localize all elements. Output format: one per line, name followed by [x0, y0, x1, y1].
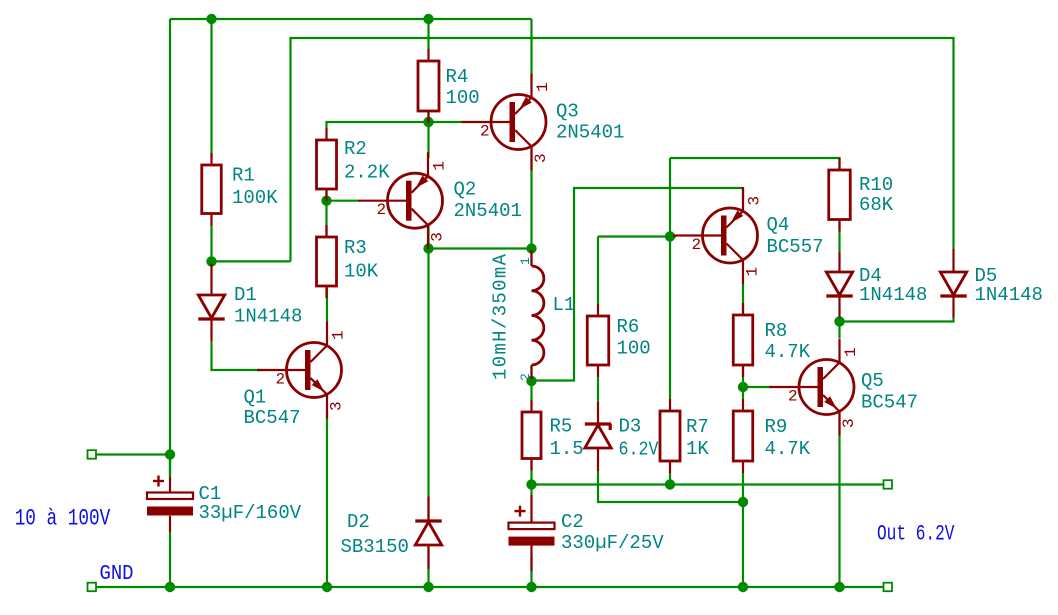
junction [526, 243, 536, 253]
wire left rail [169, 19, 171, 477]
svg-text:D1: D1 [234, 284, 257, 306]
wire R2 top to Q3 base [327, 122, 463, 129]
wire C1 top lead [169, 455, 171, 477]
wire R9 top [742, 387, 744, 399]
svg-text:1: 1 [431, 161, 449, 171]
wire L1 top lead [530, 249, 532, 267]
svg-text:4.7K: 4.7K [765, 438, 811, 460]
svg-text:2: 2 [518, 373, 533, 381]
wire second rail [291, 38, 954, 261]
wire L1 to R5 [530, 381, 532, 400]
svg-text:68K: 68K [859, 194, 894, 216]
wire R5 bottom [530, 459, 532, 485]
wire D1 to Q1 base [212, 341, 263, 370]
diode D2 leads [427, 497, 429, 522]
terminal input [88, 450, 97, 459]
svg-text:BC557: BC557 [767, 236, 824, 258]
junction [738, 582, 748, 592]
transistor Q5 [799, 360, 854, 415]
wire R4 to junction [427, 111, 429, 122]
wire R2 bottom junction [325, 189, 327, 237]
wire R1 column [210, 19, 212, 157]
capacitor C1 [147, 493, 193, 500]
wire C2 bottom to GND [530, 555, 532, 587]
resistor R3 [325, 225, 327, 237]
svg-text:10 à 100V: 10 à 100V [15, 506, 111, 532]
wire R10 riser [670, 158, 840, 170]
junction [738, 382, 748, 392]
junction [738, 497, 748, 507]
svg-text:BC547: BC547 [861, 392, 918, 414]
transistor Q2 [388, 173, 443, 228]
svg-text:3: 3 [429, 232, 447, 242]
resistor R10 [838, 158, 840, 170]
svg-text:330µF/25V: 330µF/25V [561, 532, 664, 554]
svg-text:1: 1 [842, 347, 860, 357]
wire Q2 pin3 to L1 wire [427, 225, 429, 249]
resistor R7 [669, 399, 671, 411]
svg-text:100: 100 [446, 87, 480, 109]
wire Q5 base [743, 386, 772, 388]
junction [165, 449, 175, 459]
svg-text:10K: 10K [344, 261, 379, 283]
svg-text:1.5: 1.5 [550, 438, 584, 460]
inductor L1 [532, 266, 544, 365]
svg-text:R9: R9 [765, 416, 788, 438]
diode D1 leads [210, 264, 212, 295]
svg-text:C2: C2 [561, 511, 584, 533]
svg-text:1K: 1K [686, 438, 709, 460]
wire R8 bottom junction [742, 365, 744, 387]
svg-text:1N4148: 1N4148 [859, 284, 927, 306]
terminal GND right [884, 583, 893, 592]
wire R9 bottom to GND [742, 473, 744, 587]
svg-text:R6: R6 [617, 316, 640, 338]
svg-text:Out 6.2V: Out 6.2V [877, 522, 955, 547]
svg-text:10mH/350mA: 10mH/350mA [490, 253, 512, 380]
svg-text:6.2V: 6.2V [619, 439, 660, 461]
svg-text:R4: R4 [446, 66, 469, 88]
wire Q3 pin1 from top rail [530, 19, 532, 80]
junction [526, 479, 536, 489]
capacitor C1 leads [169, 477, 171, 493]
wire top rail [170, 18, 532, 20]
svg-text:R5: R5 [550, 416, 573, 438]
svg-text:D3: D3 [619, 416, 642, 438]
zener D3 leads [597, 402, 599, 423]
wire R4 column top [427, 19, 429, 50]
resistor R4 [427, 49, 429, 61]
junction [423, 582, 433, 592]
svg-text:100K: 100K [232, 187, 278, 209]
capacitor C2 [509, 523, 555, 530]
svg-text:1N4148: 1N4148 [234, 306, 302, 328]
svg-text:BC547: BC547 [244, 407, 301, 429]
diode D4 leads [838, 252, 840, 272]
wire C2 top [530, 485, 532, 498]
svg-text:3: 3 [746, 196, 764, 206]
capacitor C2 leads [530, 495, 532, 522]
svg-text:3: 3 [532, 153, 550, 163]
resistor R2 [325, 128, 327, 140]
svg-text:33µF/160V: 33µF/160V [199, 502, 302, 524]
inductor L1 leads [530, 250, 532, 266]
wire R7 column [669, 158, 671, 399]
zener D3 [585, 425, 611, 448]
wire junction to Q5 pin1 [838, 322, 840, 339]
svg-text:R2: R2 [344, 138, 367, 160]
wire R10 to D4 [838, 220, 840, 253]
wire L1 bottom lead [530, 365, 532, 381]
wire Q2-L1 horizontal [429, 247, 532, 249]
svg-text:1N4148: 1N4148 [975, 284, 1043, 306]
svg-text:2N5401: 2N5401 [556, 122, 624, 144]
diode D4 [826, 272, 852, 295]
diode D2 [415, 522, 441, 545]
wire D4-D5 bottoms [840, 317, 954, 322]
svg-text:1: 1 [534, 82, 552, 92]
wire Q4 pin3 lead [742, 188, 744, 199]
svg-text:R3: R3 [344, 237, 367, 259]
svg-text:Q4: Q4 [767, 214, 790, 236]
svg-text:R1: R1 [232, 165, 255, 187]
svg-text:2.2K: 2.2K [344, 162, 390, 184]
wire R3 bottom to Q1 pin1 [326, 286, 328, 322]
svg-text:2: 2 [377, 201, 387, 219]
wire left rail lower [169, 532, 171, 587]
svg-text:3: 3 [840, 418, 858, 428]
wire R1 to D1 [210, 224, 212, 266]
svg-text:SB3150: SB3150 [341, 536, 409, 558]
terminal output [884, 480, 893, 489]
wire output rail [532, 483, 885, 485]
svg-text:Q1: Q1 [244, 387, 267, 409]
svg-text:4.7K: 4.7K [765, 341, 811, 363]
wire input [96, 453, 171, 455]
wire D4 to junction [838, 318, 840, 323]
junction [665, 479, 675, 489]
svg-text:2: 2 [788, 388, 798, 406]
transistor Q4 [703, 208, 758, 263]
wire base wire to Q4 [598, 235, 676, 237]
wire R6 top to base wire [597, 237, 599, 305]
diode D1 [198, 295, 224, 318]
svg-text:R7: R7 [686, 416, 709, 438]
junction [526, 376, 536, 386]
svg-text:GND: GND [100, 563, 134, 586]
wire GND rail [96, 586, 885, 588]
wire Q2 column down to D2 [427, 249, 429, 588]
svg-text:2N5401: 2N5401 [454, 200, 522, 222]
terminal GND left [88, 583, 97, 592]
junction [423, 14, 433, 24]
transistor Q3 [491, 95, 546, 150]
wire R6 to D3 [597, 377, 599, 402]
resistor R1 [210, 153, 212, 165]
svg-text:R8: R8 [765, 320, 788, 342]
junction [834, 316, 844, 326]
wire Q5 pin3 to GND [838, 414, 840, 587]
wire R7 bottom [669, 473, 671, 485]
junction [526, 582, 536, 592]
junction [321, 196, 331, 206]
wire Q1 pin3 to GND [326, 410, 328, 587]
junction [423, 243, 433, 253]
svg-text:3: 3 [328, 401, 346, 411]
junction [165, 582, 175, 592]
svg-text:D2: D2 [347, 511, 370, 533]
junction [423, 117, 433, 127]
svg-text:1: 1 [518, 257, 533, 265]
svg-text:Q5: Q5 [861, 370, 884, 392]
svg-text:1: 1 [744, 267, 762, 277]
wire junction to Q2 pin1 [427, 122, 429, 158]
junction [206, 14, 216, 24]
resistor R6 [597, 304, 599, 316]
svg-text:Q2: Q2 [454, 179, 477, 201]
svg-text:2: 2 [480, 123, 490, 141]
wire Q3 pin3 down [530, 150, 532, 249]
svg-text:2: 2 [692, 236, 702, 254]
wire L1 bottom to Q4 pin3 riser [532, 188, 744, 381]
junction [665, 231, 675, 241]
svg-text:1: 1 [330, 330, 348, 340]
transistor Q1 [287, 343, 342, 398]
resistor R5 [530, 400, 532, 412]
junction [322, 582, 332, 592]
svg-text:R10: R10 [859, 174, 893, 196]
resistor R9 [742, 399, 744, 411]
svg-text:2: 2 [276, 371, 286, 389]
wire Q2 base [327, 200, 359, 202]
diode D5 leads [952, 249, 954, 272]
junction [834, 582, 844, 592]
svg-text:100: 100 [617, 338, 651, 360]
wire R1 junction to second rail [212, 260, 291, 262]
wire Q4 pin1 to R8 [742, 282, 744, 315]
wire D3 to out wire [598, 471, 743, 502]
svg-text:L1: L1 [553, 294, 576, 316]
svg-text:Q3: Q3 [556, 101, 579, 123]
resistor R8 [742, 303, 744, 315]
junction [206, 256, 216, 266]
diode D5 [940, 272, 966, 295]
